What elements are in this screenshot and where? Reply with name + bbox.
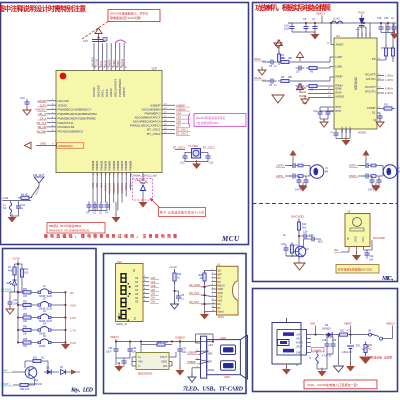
amp AVDD pin wire [327,23,334,45]
FM antenna [31,173,44,198]
amp bottom pins [342,126,352,138]
svg-text:DACL: DACL [100,60,103,67]
key S4 [17,324,76,336]
reg wires [132,342,176,367]
svg-text:SD_CLS: SD_CLS [189,291,199,295]
UBAT teal [1,382,17,386]
right speaker LS2 [349,150,400,192]
key node bus [15,264,19,293]
svg-text:PB4: PB4 [100,182,103,187]
svg-text:C28: C28 [322,340,327,342]
crystal wires [173,146,215,164]
MCU panel title text [0,4,86,13]
gnd c27 [176,367,185,376]
note box DACVDD [108,10,160,22]
svg-text:VIN: VIN [3,369,7,373]
svg-text:U100: U100 [224,376,230,379]
gnd L1 [8,212,19,223]
svg-text:SR_CLK: SR_CLK [36,121,46,125]
DACVDD mic [291,215,305,223]
svg-text:10uF: 10uF [284,28,290,31]
note box tvs [150,198,206,217]
svg-text:GND: GND [40,142,46,146]
svg-text:ADKMCH: ADKMCH [35,108,46,112]
res R14 mic [297,219,307,246]
vcc arrow amp left [276,40,283,58]
gnd under TVS [139,199,148,208]
svg-text:VBAT: VBAT [344,322,352,326]
Key LED label [70,388,94,394]
amp bottom gnd [336,132,367,146]
svg-text:VSS: VSS [92,183,95,188]
svg-text:V5S: V5S [218,299,223,302]
svg-text:R11: R11 [384,104,389,107]
svg-text:C19: C19 [20,97,25,100]
svg-text:R21: R21 [340,330,345,333]
svg-text:BLUB4用,避免错误可见: BLUB4用,避免错误可见 [196,116,225,120]
svg-text:RINP: RINP [336,75,343,79]
svg-text:0.5V: 0.5V [70,304,76,308]
svg-text:R52 103: R52 103 [20,388,30,391]
svg-text:SD01: SD01 [218,316,225,319]
svg-text:1N5819: 1N5819 [322,327,331,330]
svg-text:整不,功放迷请推荐使用TVS位: 整不,功放迷请推荐使用TVS位 [160,211,204,215]
res R1 key [8,264,18,278]
svg-text:GNB: GNB [3,196,9,200]
svg-text:+5V: +5V [208,343,213,347]
7LED USB TFCARD label [183,387,244,393]
svg-text:Key、LED: Key、LED [70,388,94,394]
svg-text:USBDM: USBDM [187,351,196,355]
svg-text:DP: DP [208,360,212,364]
cap C24 [128,342,138,355]
svg-text:GND、AGND在电脑入口连接在一起!: GND、AGND在电脑入口连接在一起! [307,382,358,387]
TF gnd [200,311,209,320]
svg-text:LED: LED [6,282,11,285]
res R11 comp [377,104,395,111]
svg-text:USB5V: USB5V [175,336,185,340]
svg-text:GND: GND [296,352,302,355]
svg-text:R55: R55 [23,339,28,341]
amp chip left pin names [336,43,345,114]
svg-text:ROUTP: ROUTP [365,85,375,89]
cap C12 [180,152,192,165]
svg-text:GND: GND [354,236,358,242]
svg-text:PGND: PGND [342,126,344,133]
svg-text:R10: R10 [388,47,393,50]
MIC label [381,276,397,282]
svg-text:+3.3V: +3.3V [12,257,20,261]
svg-text:BT_OSC1: BT_OSC1 [173,146,185,150]
svg-text:PA0ADC0: PA0ADC0 [121,182,124,193]
svg-text:R16: R16 [157,341,162,344]
svg-text:VOUT: VOUT [160,355,168,359]
VBAT [344,322,369,336]
key S2 [17,299,76,311]
svg-text:R53: R53 [23,314,28,316]
cap C5 7led [175,291,185,302]
cap C13 [201,153,214,165]
cap C14 key [6,292,19,314]
svg-text:SB_DM: SB_DM [38,125,47,129]
caps amp bottom [330,130,339,139]
svg-text:ME6209A33: ME6209A33 [138,372,153,376]
VIN power [310,322,316,336]
VMCU reg [110,335,119,342]
svg-text:C19: C19 [309,234,314,237]
vcc small row3 [272,84,304,103]
svg-text:USBDP: USBDP [187,360,196,364]
pink note MCU right [188,113,246,127]
cap C6 [268,60,278,69]
svg-text:AB2PW: AB2PW [122,87,126,97]
cap C11 byp [320,107,335,127]
regulator U9 [136,353,169,376]
svg-text:VDD: VDD [218,292,223,295]
svg-text:DAVDD: DAVDD [38,99,47,103]
svg-text:按电池板, 请调整: 按电池板, 请调整 [371,356,392,360]
TF bus [204,282,212,313]
amp/mic dashed divider [253,203,398,205]
svg-text:DACR: DACR [254,76,261,80]
res R4 [278,57,334,64]
svg-text:104*2: 104*2 [368,189,375,192]
svg-text:VMCU: VMCU [386,322,395,326]
svg-text:KEY/ADC: KEY/ADC [1,288,13,292]
svg-text:4.7K: 4.7K [347,330,352,333]
svg-text:8.4KHz: 8.4KHz [385,92,394,95]
svg-text:R31: R31 [33,357,38,360]
7led/usb/tf panel border [104,254,247,394]
VCC arrow above MCU [95,28,102,43]
net ENB [301,87,334,90]
MCU U3 [56,66,162,173]
gnd amp left2 [258,67,266,76]
svg-text:PWM9B: PWM9B [128,160,132,170]
svg-text:BT_OSC2: BT_OSC2 [176,132,188,136]
MICIN label [283,234,286,237]
svg-text:C1K: C1K [218,296,223,299]
svg-text:1.0V: 1.0V [70,316,76,320]
svg-text:MCU: MCU [221,235,240,243]
amp gnd top [292,31,320,40]
amp top rail [288,22,396,24]
svg-text:G/MAPI(R): G/MAPI(R) [58,144,73,148]
svg-text:DACR: DACR [104,60,107,67]
pink arc [115,40,126,43]
svg-text:PWM4B: PWM4B [108,160,112,170]
gnd L3 [317,354,327,377]
res R7 FB [377,23,395,62]
svg-text:ROUTP: ROUTP [365,73,375,77]
cap C10 byp [313,107,334,118]
caps under MCU [86,202,110,215]
svg-text:NC: NC [368,348,372,351]
power note box [304,380,377,389]
svg-text:8.4KHz: 8.4KHz [385,88,394,91]
more caps text [322,356,332,358]
svg-text:PVDD: PVDD [118,60,120,67]
cap C18 [301,231,313,240]
svg-text:2.2V: 2.2V [70,341,76,345]
svg-text:UR_1: UR_1 [296,338,303,341]
SD_DAT net [189,300,212,304]
7seg digits [120,273,130,321]
svg-text:CD: CD [218,270,222,273]
svg-text:NC: NC [41,357,45,360]
svg-text:LOUTN: LOUTN [366,77,376,81]
svg-text:7位 按键内部4002: 7位 按键内部4002 [196,121,219,125]
svg-text:1.7V: 1.7V [70,329,76,333]
svg-text:R54: R54 [23,327,28,329]
svg-text:20K: 20K [288,57,293,60]
mic transistor Q2 [292,246,309,257]
caps C19 C20 C21 [377,18,399,39]
svg-text:R52: R52 [23,302,28,304]
IR vcc [364,236,385,262]
svg-text:EMCS: EMCS [218,284,226,287]
net DACR [254,76,270,81]
res R12 [173,270,182,292]
svg-text:1K5: 1K5 [24,272,29,275]
svg-text:PG: PG [362,33,364,36]
red bold note [44,234,177,239]
svg-text:PWM7B: PWM7B [120,160,124,170]
TF card J2 [217,263,239,320]
KEYADC net [1,288,15,293]
battery BT1 [342,335,361,365]
svg-text:CPL_M: CPL_M [38,112,47,116]
key/led panel border [3,249,97,396]
svg-text:PIGNDCM3B4DC5: PIGNDCM3B4DC5 [58,129,84,133]
MCU inside bottom names [91,160,132,170]
MCU right pins [130,103,190,135]
SD_GND net [189,283,212,287]
USB connector J3 [196,335,248,379]
key S1 [17,286,74,298]
IR note box [336,265,379,274]
svg-text:图中注释说明设计时需特别注意: 图中注释说明设计时需特别注意 [0,4,86,13]
svg-text:BT_OSC2: BT_OSC2 [203,146,215,150]
svg-text:DACVDD: DACVDD [291,215,305,219]
bead FB2 [103,38,107,42]
res R52b [17,378,35,391]
VMCU label amp [316,12,325,24]
svg-text:C87: C87 [176,124,181,128]
svg-text:红外接收头的电源DACVDD: 红外接收头的电源DACVDD [338,267,372,271]
svg-text:UR_R: UR_R [296,346,303,349]
amp chip top pins [358,23,372,38]
svg-text:S1: S1 [372,111,376,115]
bead L2 [331,19,343,24]
svg-text:1K: 1K [177,277,180,280]
svg-text:BT1: BT1 [356,345,361,348]
diode D3 [44,367,59,375]
power rail [311,334,324,336]
svg-text:PWM8B: PWM8B [124,160,128,170]
USBDM net [187,351,209,355]
svg-text:VCCDA: VCCDA [96,58,99,67]
res R2 key [18,264,29,292]
svg-text:RSPK-: RSPK- [349,174,357,178]
svg-text:ENA: ENA [301,91,306,94]
res R3 [277,51,285,65]
svg-text:Y1 24M: Y1 24M [188,144,198,148]
svg-text:RSPK+: RSPK+ [349,164,358,168]
caps C28 C29 [322,334,337,354]
svg-text:CMD: CMD [218,288,224,291]
svg-text:AVDD3: AVDD3 [113,59,116,67]
res R8 [278,76,334,83]
svg-text:BYP: BYP [336,109,342,113]
reg gnd left [115,355,131,372]
svg-text:C83: C83 [176,115,181,119]
power usb gnd [282,364,297,375]
svg-text:DM: DM [208,351,213,355]
amplifier panel border [253,3,398,282]
amp chip right pin names [365,57,376,114]
left speaker LS1 [276,150,328,192]
svg-text:ROUTN: ROUTN [365,90,375,94]
cap C19 left [20,97,31,115]
svg-text:USBDM: USBDM [176,107,185,111]
TVS diode box [133,173,153,202]
diode D6 [322,324,339,337]
cap C8 [303,18,309,32]
mic cap [304,234,323,247]
cap C14 s1 [373,113,384,128]
svg-text:PWMC: PWMC [125,183,128,191]
amp right outputs L [377,74,394,83]
svg-text:MODE: MODE [336,95,345,99]
mic gnd [286,256,305,270]
7seg display U10 [116,260,144,322]
svg-text:R6 NC: R6 NC [21,194,28,197]
svg-text:AVDDH: AVDDH [104,183,107,191]
net GNB [3,196,32,201]
svg-text:PWM3B: PWM3B [103,160,107,170]
svg-text:C12: C12 [180,162,185,165]
svg-text:10K: 10K [23,346,28,348]
7seg bottom mark [116,317,128,327]
cap C6b [117,358,127,367]
svg-text:10K: 10K [23,296,28,298]
7seg inner pin names [135,277,139,304]
svg-text:CA_A: CA_A [40,116,47,120]
svg-text:1.3KHz: 1.3KHz [385,79,394,82]
svg-text:WP: WP [218,273,222,276]
IR gnd [352,252,361,261]
TVS net label [130,173,157,182]
svg-text:U6: U6 [347,210,351,214]
key S3 [17,311,76,323]
svg-text:AB2PW: AB2PW [122,58,125,67]
svg-text:L2 4u7: L2 4u7 [333,19,341,21]
cap C5 [268,79,278,88]
svg-text:FB: FB [372,57,376,61]
svg-text:CLPY: CLPY [40,103,47,107]
cap C7 [312,18,318,32]
svg-text:PWM5B: PWM5B [112,160,116,170]
svg-text:10K: 10K [23,321,28,323]
VIN teal [3,369,25,373]
svg-text:GND: GND [161,360,167,364]
gnd bottom bus [89,202,121,223]
usb wires [192,334,213,376]
key S5 [17,336,76,348]
MCU bottom pins [92,172,132,211]
svg-text:LEDS(_4L: LEDS(_4L [116,323,128,326]
svg-text:LINN: LINN [336,65,343,69]
svg-text:PGND: PGND [346,126,348,133]
svg-text:PWM0B: PWM0B [91,160,95,170]
MCU left pins [35,99,97,133]
svg-text:PWM1B: PWM1B [95,160,99,170]
svg-text:MIC、: MIC、 [381,276,397,282]
MCU top pins [91,43,127,97]
big gnd power [359,354,372,365]
svg-text:U4: U4 [336,34,340,38]
svg-text:SD_DAT: SD_DAT [189,300,199,304]
usb gnd [188,374,196,383]
svg-text:WWG34C3!, IGCSGBWB W34C31: WWG34C3!, IGCSGBWB W34C31 [49,229,90,233]
cap row2 [296,66,335,74]
svg-text:BT_O5C2: BT_O5C2 [147,132,161,136]
amp chip U4 MD3642 [334,34,377,129]
svg-text:MD3M1: MD3M1 [358,132,367,135]
svg-text:IRA: IRA [334,248,339,252]
svg-text:VMCU: VMCU [110,335,119,339]
IRA net [334,248,341,253]
svg-text:20K: 20K [288,76,293,79]
switch S6 [368,330,383,341]
svg-text:8R: 8R [325,171,328,174]
svg-text:AGND: AGND [296,342,303,345]
svg-text:+3.3V: +3.3V [169,265,177,269]
svg-text:DACVDD: DACVDD [91,57,94,67]
svg-text:DACL: DACL [254,57,261,61]
svg-text:AGND: AGND [349,126,352,133]
SD_CLS net [189,291,212,296]
cap C15 [83,39,105,43]
svg-text:SB_DM4: SB_DM4 [36,129,47,133]
cap C16b [16,201,26,212]
svg-text:Shad: Shad [218,311,224,314]
cap C16 pol [284,23,295,32]
svg-text:C86: C86 [176,120,181,124]
cap C27 [178,342,188,370]
7seg inner texts [118,268,137,320]
svg-text:C20: C20 [384,18,389,20]
svg-text:IR: IR [346,237,350,240]
svg-text:C13: C13 [209,162,214,165]
svg-text:C18: C18 [303,231,308,234]
svg-text:C19: C19 [377,18,382,20]
svg-text:C10: C10 [313,110,318,113]
res R24 NC [362,342,373,356]
cap C25 [106,342,119,355]
res R16 [141,341,172,346]
diode PU10 [356,11,365,32]
res R28 [199,270,212,284]
svg-text:MODE: MODE [299,95,307,98]
svg-text:隔电路连接至 5LDO引脚: 隔电路连接至 5LDO引脚 [110,16,141,20]
net MODE [299,95,334,105]
svg-text:104: 104 [182,351,187,354]
svg-text:U(BAT): U(BAT) [1,382,10,386]
svg-text:+5V: +5V [296,334,301,337]
svg-text:10uF: 10uF [106,351,112,354]
